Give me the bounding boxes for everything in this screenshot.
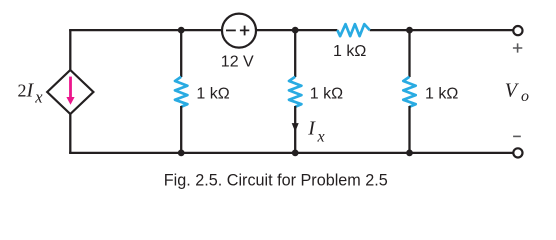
dependent current source 2Ix (diamond)	[47, 70, 93, 114]
svg-text:o: o	[521, 88, 529, 105]
label 1 kΩ branch1	[196, 85, 229, 102]
plus sign output	[513, 43, 522, 52]
svg-text:x: x	[317, 128, 325, 145]
caption Fig. 2.5. Circuit for Problem 2.5	[164, 172, 388, 190]
node dot branch1 top	[178, 27, 185, 34]
wire branch3 lower	[408, 106, 410, 153]
svg-text:2: 2	[18, 80, 27, 100]
wire top rail left segment	[69, 29, 239, 31]
label 12 V	[221, 53, 254, 70]
svg-text:V: V	[505, 80, 520, 102]
node dot branch1 bottom	[178, 150, 185, 157]
resistor 1 kΩ branch1 (zigzag)	[175, 77, 187, 107]
wire top rail right segment	[370, 29, 514, 31]
wire branch2 lower with Ix arrow	[292, 106, 299, 153]
label Vo	[505, 80, 529, 105]
svg-text:1 kΩ: 1 kΩ	[310, 85, 343, 102]
svg-text:1 kΩ: 1 kΩ	[196, 85, 229, 102]
label 2Ix	[18, 79, 44, 106]
node dot branch3 top	[406, 27, 413, 34]
resistor 1 kΩ top horizontal (zigzag)	[337, 24, 369, 36]
svg-text:I: I	[307, 117, 316, 139]
wire branch1 lower	[180, 106, 182, 153]
voltage source 12 V	[222, 14, 256, 48]
wire branch2 upper	[294, 30, 296, 77]
node dot branch2 bottom	[292, 150, 299, 157]
wire bottom rail	[69, 152, 513, 154]
terminal top right (open circle)	[513, 26, 522, 35]
resistor 1 kΩ branch3 (zigzag)	[403, 77, 415, 107]
svg-text:1 kΩ: 1 kΩ	[333, 43, 366, 60]
svg-text:1 kΩ: 1 kΩ	[425, 85, 458, 102]
wire top rail middle segment	[239, 29, 337, 31]
minus sign output	[513, 135, 521, 137]
label Ix	[307, 117, 324, 145]
label 1 kΩ branch3	[425, 85, 458, 102]
node dot branch3 bottom	[406, 150, 413, 157]
svg-text:I: I	[26, 79, 35, 101]
wire left branch lower	[69, 113, 71, 153]
label 1 kΩ top resistor	[333, 43, 366, 60]
resistor 1 kΩ branch2 (zigzag)	[289, 77, 301, 107]
node dot branch2 top	[292, 27, 299, 34]
wire left branch upper	[69, 30, 71, 71]
wire branch3 upper	[408, 30, 410, 77]
svg-text:Fig. 2.5. Circuit for Problem: Fig. 2.5. Circuit for Problem 2.5	[164, 172, 388, 190]
wire branch1 upper	[180, 30, 182, 77]
svg-text:12 V: 12 V	[221, 53, 254, 70]
svg-text:x: x	[34, 88, 43, 107]
terminal bottom right (open circle)	[513, 148, 522, 157]
label 1 kΩ branch2	[310, 85, 343, 102]
